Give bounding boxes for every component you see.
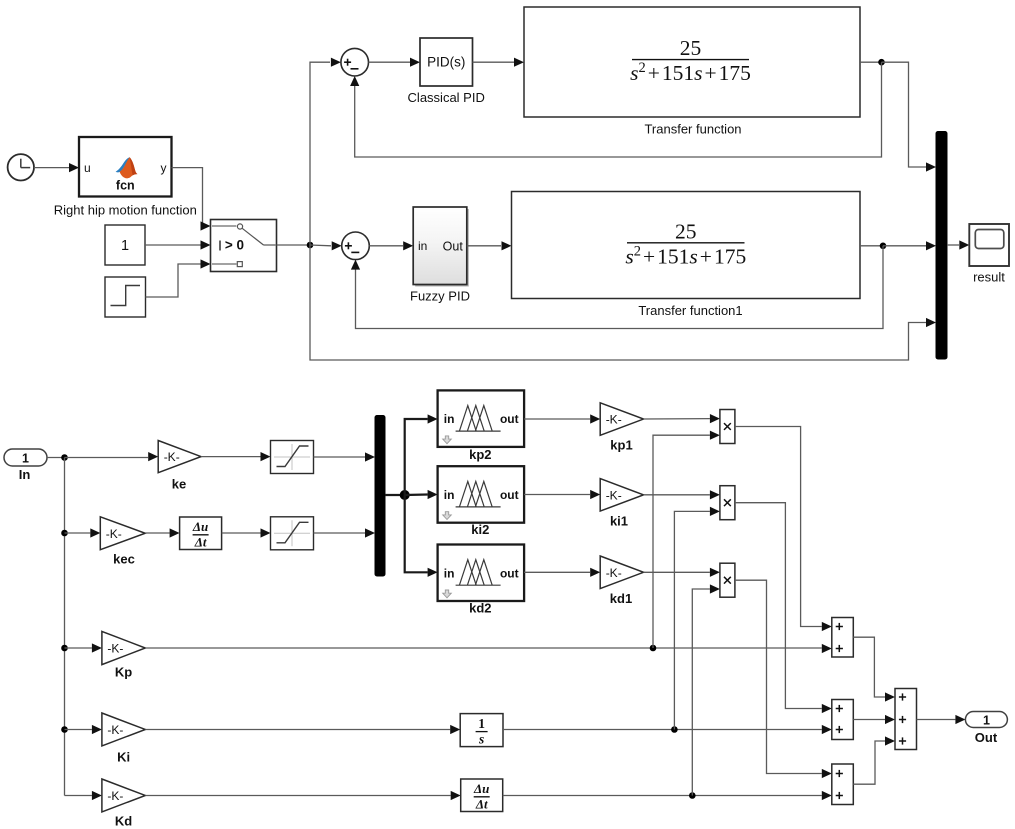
label result bbox=[973, 270, 1005, 285]
svg-text:25: 25 bbox=[675, 220, 697, 244]
gain ki1 bbox=[600, 479, 643, 529]
label Transfer function1 bbox=[638, 303, 742, 318]
sum block 3 (add) bbox=[832, 764, 854, 805]
junction dot after In bbox=[61, 454, 68, 461]
svg-text:-K-: -K- bbox=[164, 450, 180, 464]
gain Kp bbox=[102, 631, 145, 679]
scope block (result) bbox=[969, 224, 1009, 266]
label In bbox=[19, 467, 31, 482]
svg-text:kp2: kp2 bbox=[469, 447, 491, 462]
output port Out bbox=[965, 712, 1007, 728]
wire vertical trunk from In bbox=[64, 458, 66, 796]
fuzzy logic block ki2 bbox=[438, 466, 524, 537]
wire product3 to sum3 bbox=[735, 580, 832, 778]
derivative block du/dt bbox=[180, 517, 222, 550]
integrator block 1/s bbox=[460, 714, 503, 747]
wire to fuzzy kp2 bbox=[405, 414, 438, 495]
wire ki2 to gain ki1 bbox=[524, 490, 600, 499]
svg-text:PID(s): PID(s) bbox=[427, 55, 465, 70]
svg-text:In: In bbox=[19, 467, 31, 482]
label Classical PID bbox=[408, 90, 485, 105]
wire sum2 to final sum bbox=[853, 715, 895, 724]
gain kd1 bbox=[600, 556, 643, 606]
junction dot kec branch bbox=[61, 530, 68, 537]
gain kec bbox=[100, 517, 145, 567]
wire kp1 to product1 bbox=[644, 414, 720, 423]
wire Kd to derivative2 bbox=[145, 791, 460, 800]
junction dot Kp to product1 bbox=[650, 645, 657, 652]
svg-text:25: 25 bbox=[680, 36, 702, 60]
wire to gain kec bbox=[65, 528, 101, 537]
wire derivative to saturation bbox=[222, 528, 271, 537]
svg-text:Δu: Δu bbox=[473, 781, 489, 796]
transfer function block bbox=[524, 7, 860, 117]
sum block 1 (add) bbox=[832, 618, 854, 658]
wire sum1 to final sum bbox=[853, 637, 895, 701]
saturation block 1 bbox=[271, 441, 314, 474]
svg-text:> 0: > 0 bbox=[225, 238, 244, 253]
wire Fuzzy PID to transfer function1 bbox=[467, 241, 512, 250]
junction dot Kp branch bbox=[61, 645, 68, 652]
junction dot at transfer function output bbox=[878, 59, 885, 66]
wire junction to bottom sum bbox=[310, 241, 342, 250]
constant block 1 bbox=[105, 225, 145, 265]
wire Ki up to product2 bbox=[674, 507, 720, 730]
wire transfer function output bbox=[860, 61, 882, 63]
svg-text:Δt: Δt bbox=[194, 535, 207, 550]
wire In to junction bbox=[47, 457, 65, 459]
wire mux to scope bbox=[947, 240, 969, 249]
wire product2 to sum2 bbox=[735, 503, 832, 713]
wire to gain Kp bbox=[65, 643, 102, 652]
wire feedback bottom loop bbox=[351, 246, 883, 329]
svg-text:ke: ke bbox=[172, 477, 186, 492]
wire bottom sum to Fuzzy PID bbox=[369, 241, 413, 250]
wire sum3 to final sum bbox=[853, 736, 895, 784]
gain Ki bbox=[102, 713, 145, 765]
svg-text:-K-: -K- bbox=[106, 527, 122, 541]
sum block 2 (add) bbox=[832, 700, 854, 740]
label Fuzzy PID bbox=[410, 289, 470, 304]
svg-text:1: 1 bbox=[478, 716, 485, 731]
wire junction up to top sum bbox=[310, 58, 341, 245]
junction dot Ki to product2 bbox=[671, 726, 678, 733]
junction dot at transfer function1 output bbox=[880, 243, 887, 250]
wire Ki to integrator bbox=[145, 725, 460, 734]
svg-text:kp1: kp1 bbox=[610, 438, 632, 453]
svg-text:ki2: ki2 bbox=[471, 522, 489, 537]
svg-text:-K-: -K- bbox=[107, 789, 123, 803]
derivative block du/dt (Kd row) bbox=[461, 779, 503, 812]
switch block (> 0) bbox=[211, 220, 277, 272]
saturation block 2 bbox=[271, 517, 314, 550]
wire kec to derivative bbox=[145, 528, 179, 537]
label Right hip motion function bbox=[54, 203, 197, 218]
wire clock to fcn block bbox=[34, 163, 79, 172]
svg-text:-K-: -K- bbox=[107, 642, 123, 656]
svg-text:in: in bbox=[418, 239, 427, 253]
wire Kd up to product3 bbox=[692, 584, 720, 795]
svg-text:in: in bbox=[444, 412, 455, 426]
wire saturation1 to mux bbox=[314, 452, 376, 461]
wire to gain Kd bbox=[65, 791, 102, 800]
svg-text:Fuzzy PID: Fuzzy PID bbox=[410, 289, 470, 304]
sum junction (top, classical loop) bbox=[341, 48, 369, 76]
input port In bbox=[4, 449, 47, 466]
wire switch output bbox=[277, 244, 311, 246]
wire mux2 output bbox=[385, 494, 405, 496]
wire top sum to PID bbox=[369, 58, 421, 67]
junction dot at switch output bbox=[307, 242, 314, 249]
svg-text:Transfer function1: Transfer function1 bbox=[638, 303, 742, 318]
wire to fuzzy ki2 bbox=[405, 490, 438, 499]
svg-text:Kp: Kp bbox=[115, 665, 132, 680]
product block 3 (multiply) bbox=[720, 563, 735, 597]
wire Kp up to product1 bbox=[653, 431, 720, 648]
svg-text:Out: Out bbox=[975, 730, 998, 745]
svg-text:s2+151s+175: s2+151s+175 bbox=[630, 60, 751, 85]
MATLAB Function block (Right hip motion function) bbox=[79, 137, 172, 197]
svg-text:ki1: ki1 bbox=[610, 514, 628, 529]
wire transfer function1 output bbox=[860, 245, 882, 247]
svg-text:out: out bbox=[500, 412, 519, 426]
wire to gain ke bbox=[65, 452, 159, 461]
svg-text:in: in bbox=[444, 566, 455, 580]
PID controller block bbox=[420, 38, 473, 86]
svg-text:kd1: kd1 bbox=[610, 591, 632, 606]
junction dot mux2 output bbox=[400, 490, 410, 500]
svg-text:Δu: Δu bbox=[192, 519, 208, 534]
wire Kp line to sum1 bbox=[145, 644, 832, 653]
svg-text:Kd: Kd bbox=[115, 814, 132, 829]
gain ke bbox=[158, 441, 201, 492]
svg-text:result: result bbox=[973, 270, 1005, 285]
svg-text:-K-: -K- bbox=[606, 566, 622, 580]
svg-text:out: out bbox=[500, 488, 519, 502]
Fuzzy PID subsystem block bbox=[413, 207, 469, 287]
svg-text:s2+151s+175: s2+151s+175 bbox=[625, 243, 746, 268]
svg-text:Transfer function: Transfer function bbox=[644, 122, 741, 137]
wire ke to saturation bbox=[201, 452, 271, 461]
wire fcn to switch bbox=[172, 168, 211, 231]
wire feedback top loop bbox=[350, 62, 881, 157]
svg-text:1: 1 bbox=[983, 714, 990, 728]
svg-text:kec: kec bbox=[113, 552, 135, 567]
junction dot Ki branch bbox=[61, 726, 68, 733]
wire product1 to sum1 bbox=[735, 427, 832, 632]
clock source block bbox=[8, 154, 34, 180]
label Out bbox=[975, 730, 998, 745]
step block bbox=[105, 277, 146, 317]
wire to fuzzy kd2 bbox=[405, 495, 438, 577]
svg-text:1: 1 bbox=[121, 238, 129, 254]
svg-text:Δt: Δt bbox=[475, 797, 488, 812]
fuzzy logic block kp2 bbox=[438, 390, 524, 462]
svg-text:-K-: -K- bbox=[606, 488, 622, 502]
wire ki1 to product2 bbox=[644, 490, 720, 499]
svg-text:Out: Out bbox=[443, 239, 464, 253]
svg-text:fcn: fcn bbox=[116, 178, 135, 192]
svg-text:in: in bbox=[444, 488, 455, 502]
wire to mux input 1 bbox=[882, 62, 937, 171]
wire kp2 to gain kp1 bbox=[524, 414, 600, 423]
svg-text:y: y bbox=[161, 161, 167, 175]
final sum block (add three) bbox=[895, 689, 917, 750]
wire kd2 to gain kd1 bbox=[524, 568, 600, 577]
svg-text:Classical PID: Classical PID bbox=[408, 90, 485, 105]
wire step to switch bbox=[146, 259, 211, 297]
product block 2 (multiply) bbox=[720, 486, 735, 520]
svg-text:1: 1 bbox=[22, 452, 29, 466]
junction dot Kd to product3 bbox=[689, 792, 696, 799]
wire to gain Ki bbox=[65, 725, 102, 734]
wire junction down to mux input 3 bbox=[310, 245, 936, 360]
svg-text:out: out bbox=[500, 566, 519, 580]
svg-text:u: u bbox=[84, 161, 91, 175]
svg-text:kd2: kd2 bbox=[469, 601, 491, 616]
wire PID to transfer function bbox=[473, 58, 525, 67]
svg-text:Ki: Ki bbox=[117, 750, 130, 765]
wire integrator to sum2 bbox=[503, 725, 832, 734]
wire saturation2 to mux bbox=[314, 528, 376, 537]
transfer function1 block bbox=[512, 192, 861, 299]
svg-text:-K-: -K- bbox=[606, 413, 622, 427]
label Transfer function bbox=[644, 122, 741, 137]
svg-text:-K-: -K- bbox=[107, 723, 123, 737]
wire kd1 to product3 bbox=[644, 568, 720, 577]
gain kp1 bbox=[600, 403, 643, 453]
gain Kd bbox=[102, 779, 145, 829]
wire derivative2 to sum3 bbox=[503, 791, 832, 800]
product block 1 (multiply) bbox=[720, 410, 735, 444]
mux bar (fuzzy inputs) bbox=[375, 416, 385, 577]
wire to mux input 2 bbox=[883, 241, 936, 250]
fuzzy logic block kd2 bbox=[438, 545, 524, 616]
wire final sum to Out bbox=[917, 715, 966, 724]
svg-text:s: s bbox=[478, 732, 484, 747]
sum junction (bottom, fuzzy loop) bbox=[342, 232, 370, 260]
svg-text:Right hip motion function: Right hip motion function bbox=[54, 203, 197, 218]
wire constant to switch bbox=[145, 240, 211, 249]
mux bar (signal merge) bbox=[936, 132, 947, 360]
